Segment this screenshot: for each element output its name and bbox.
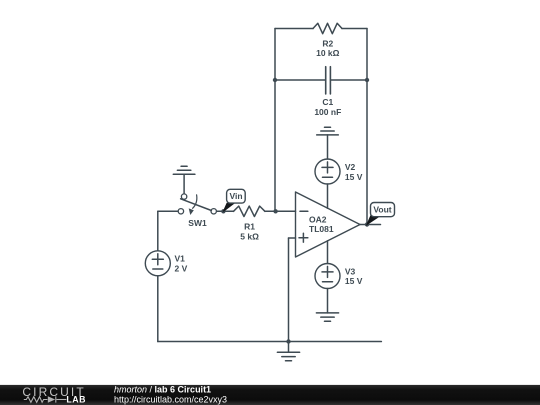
wire op-amp V- pin to V3 <box>327 241 329 264</box>
svg-text:V3: V3 <box>345 267 356 277</box>
svg-text:Vin: Vin <box>229 191 242 201</box>
svg-text:15 V: 15 V <box>345 276 363 286</box>
wire op-amp output stub <box>360 224 381 226</box>
footer title hmorton / lab 6 Circuit1 <box>114 385 211 395</box>
logo CIRCUIT text <box>22 385 85 399</box>
wire R1 to inverting input node <box>265 210 276 212</box>
node output junction <box>365 222 369 226</box>
voltage source V1 <box>145 251 170 276</box>
wire feedback left vertical <box>274 29 276 212</box>
wire V1 bottom <box>157 276 159 342</box>
footer url <box>114 394 227 404</box>
wire left branch to switch <box>158 210 178 212</box>
label R1 <box>244 222 255 232</box>
label V2 value 15 V <box>345 172 363 182</box>
wire top feedback left segment <box>275 28 313 30</box>
label V3 <box>345 267 356 277</box>
ground above SW1 (flipped) <box>173 166 195 174</box>
wire feedback right vertical <box>366 29 368 225</box>
wire bottom node to ground <box>288 342 290 353</box>
svg-text:TL081: TL081 <box>309 224 334 234</box>
label SW1 <box>188 218 207 228</box>
wire capacitor left lead <box>275 79 325 81</box>
svg-text:2 V: 2 V <box>175 263 188 273</box>
wire bottom rail <box>158 341 382 343</box>
label R2 value 10 kOhm <box>316 48 340 58</box>
label R2 <box>322 38 333 48</box>
label OA2 <box>309 214 327 224</box>
node junction left of C1 <box>273 78 277 82</box>
svg-text:R2: R2 <box>322 38 333 48</box>
switch SW1 <box>178 194 216 215</box>
node flag Vout <box>367 203 395 225</box>
node inverting input junction <box>273 209 277 213</box>
label V1 value 2 V <box>175 263 188 273</box>
svg-text:V1: V1 <box>175 254 186 264</box>
svg-text:R1: R1 <box>244 222 255 232</box>
resistor R1 <box>234 206 265 216</box>
label R1 value 5 kOhm <box>240 232 259 242</box>
svg-text:http://circuitlab.com/ce2vxy3: http://circuitlab.com/ce2vxy3 <box>114 394 227 404</box>
svg-text:V2: V2 <box>345 162 356 172</box>
svg-text:C1: C1 <box>322 97 333 107</box>
wire V2 to op-amp V+ pin <box>327 184 329 208</box>
ground above V2 (flipped) <box>317 127 339 135</box>
wire top feedback right segment <box>342 28 367 30</box>
voltage source V2 <box>315 159 340 184</box>
label OA2 type TL081 <box>309 224 334 234</box>
logo LAB text <box>66 395 86 405</box>
ground bottom center <box>277 352 299 361</box>
wire switch common to R1 <box>217 210 234 212</box>
node flag Vin <box>223 189 245 211</box>
logo resistor-diode symbol <box>24 396 67 403</box>
svg-text:LAB: LAB <box>66 395 86 405</box>
wire capacitor right lead <box>331 79 367 81</box>
wire V1 top <box>157 211 159 251</box>
node Vin junction <box>221 209 225 213</box>
ground below V3 <box>316 313 338 321</box>
label V2 <box>345 162 356 172</box>
wire inverting input <box>276 210 296 212</box>
resistor R2 <box>313 23 342 33</box>
wire ground to SW1 throw <box>183 174 185 193</box>
svg-text:SW1: SW1 <box>188 218 207 228</box>
svg-text:Vout: Vout <box>373 205 391 215</box>
svg-text:5 kΩ: 5 kΩ <box>240 232 259 242</box>
wire non-inverting input stub <box>289 237 296 239</box>
wire ground to V2 <box>327 135 329 159</box>
svg-text:10 kΩ: 10 kΩ <box>316 48 340 58</box>
voltage source V3 <box>315 264 340 289</box>
svg-text:100 nF: 100 nF <box>314 107 341 117</box>
svg-text:15 V: 15 V <box>345 172 363 182</box>
node junction right of C1 <box>365 78 369 82</box>
label C1 value 100 nF <box>314 107 341 117</box>
op-amp OA2 <box>296 192 361 257</box>
label C1 <box>322 97 333 107</box>
label V1 <box>175 254 186 264</box>
capacitor C1 <box>326 67 331 94</box>
wire non-inverting input vertical <box>288 238 290 342</box>
svg-text:hmorton / lab 6 Circuit1: hmorton / lab 6 Circuit1 <box>114 385 211 395</box>
label V3 value 15 V <box>345 276 363 286</box>
node bottom ground junction <box>286 339 290 343</box>
wire V3 to ground <box>327 289 329 313</box>
svg-text:OA2: OA2 <box>309 214 327 224</box>
footer bar <box>0 385 540 405</box>
